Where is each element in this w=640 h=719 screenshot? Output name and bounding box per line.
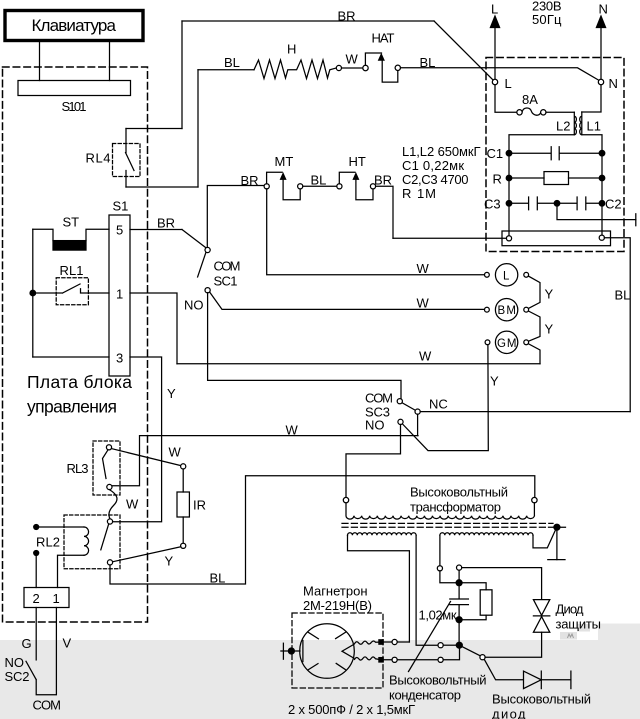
relay RL4 dashed box xyxy=(113,144,141,177)
door switch SC1 lever xyxy=(198,252,206,277)
magnetron filament square pin bottom xyxy=(379,658,383,662)
svg-text:C2,C3 4700: C2,C3 4700 xyxy=(402,172,469,187)
terminal dot pin2 xyxy=(34,551,39,556)
svg-text:L1,L2 650мкГ: L1,L2 650мкГ xyxy=(402,144,481,159)
svg-text:H: H xyxy=(287,42,296,57)
junction dot R left xyxy=(506,175,512,181)
svg-text:R 1M: R 1M xyxy=(402,186,436,201)
node W circle after heater xyxy=(336,65,341,70)
terminal L circle xyxy=(492,79,497,84)
junction dot C1 left xyxy=(506,150,512,156)
gray floor band xyxy=(0,640,640,719)
resistor R xyxy=(509,177,602,179)
wire GM left Y drop xyxy=(403,345,489,451)
svg-text:8A: 8A xyxy=(522,92,538,107)
junction dot left rail xyxy=(30,290,36,296)
relay RL2 dashed box xyxy=(64,515,120,569)
wire BL from HAT to N xyxy=(401,68,599,80)
relay RL3 top contact xyxy=(106,445,111,450)
wire cap node to filament node xyxy=(458,623,460,642)
wire BL to heater xyxy=(198,69,254,71)
wire heater to HAT xyxy=(342,67,363,69)
thermal cutout HAT body xyxy=(365,53,397,82)
bleeder resistor body xyxy=(480,590,492,615)
connector pin filament top xyxy=(438,643,443,648)
svg-text:Y: Y xyxy=(167,386,176,401)
terminal N circle xyxy=(598,79,603,84)
thermal cutout HT left contact xyxy=(337,184,342,189)
supply terminal N arrow xyxy=(596,16,605,28)
svg-text:COM: COM xyxy=(33,698,62,713)
turntable motor GM body xyxy=(495,331,517,353)
svg-text:HAT: HAT xyxy=(372,31,395,46)
magnetron pin circle bottom xyxy=(392,657,397,662)
thermal cutout HAT arrow xyxy=(378,53,385,61)
magnetron antenna triangle xyxy=(342,644,354,658)
door switch SC3 lever xyxy=(402,403,415,410)
svg-text:L: L xyxy=(491,2,498,17)
turntable motor GM left pin xyxy=(485,340,490,345)
filament winding xyxy=(348,533,417,536)
wire pin2 drop xyxy=(35,556,37,588)
gray band right extension xyxy=(598,624,640,644)
wire L2 to left rail xyxy=(509,135,574,236)
svg-text:GM: GM xyxy=(497,338,517,350)
wire Y IR to RL2 contact xyxy=(112,547,180,562)
wire RL4 to BL node xyxy=(126,186,198,188)
thermal cutout HAT left contact xyxy=(363,65,368,70)
svg-text:5: 5 xyxy=(116,223,123,238)
svg-text:RL2: RL2 xyxy=(36,535,60,550)
svg-text:трансформатор: трансформатор xyxy=(410,500,501,515)
wire N arrow lead xyxy=(600,28,602,80)
svg-text:W: W xyxy=(417,296,430,311)
S1 connector column xyxy=(109,215,130,376)
wire protection diode to output pin xyxy=(485,632,541,657)
wire NC drop to W run xyxy=(417,414,419,435)
svg-text:BR: BR xyxy=(157,216,175,231)
watermark squiggle xyxy=(568,634,574,638)
wire W run to GM right xyxy=(177,363,540,365)
fan motor BM left pin xyxy=(485,307,490,312)
wire left rail to S1 pin3 xyxy=(33,356,109,358)
svg-text:BM: BM xyxy=(498,305,517,317)
wire pin to node bottom jog xyxy=(443,648,459,659)
board connector 2|1 box xyxy=(24,588,69,608)
wire Y jumper L to BM xyxy=(528,276,540,308)
svg-text:SC1: SC1 xyxy=(214,274,238,289)
magnetron spoke upper-right xyxy=(336,632,346,638)
resistor H (heater, two sections) xyxy=(254,60,336,79)
connector S101 xyxy=(18,81,131,96)
svg-text:W: W xyxy=(169,445,182,460)
wire terminal block to BL drop xyxy=(604,238,630,412)
svg-text:ST: ST xyxy=(63,215,80,230)
svg-text:L: L xyxy=(505,76,512,91)
wire filament winding left lead xyxy=(348,535,410,642)
svg-text:IR: IR xyxy=(193,498,206,513)
wire BR diagonal to SC1 COM xyxy=(182,230,206,248)
svg-text:1: 1 xyxy=(53,591,60,606)
protection diode lower triangle xyxy=(533,617,549,633)
connector pin HV lead xyxy=(457,565,462,570)
wire SC1 NO to BM motor line xyxy=(210,292,485,309)
relay RL3 dashed box xyxy=(93,441,120,495)
svg-text:C1: C1 xyxy=(487,146,504,161)
wire Y jumper BM to GM xyxy=(528,311,540,341)
svg-text:L: L xyxy=(503,270,510,282)
relay RL2 top contact xyxy=(107,519,112,524)
relay RL2 coil xyxy=(84,527,89,555)
svg-text:Y: Y xyxy=(545,322,554,337)
door switch SC3 NC contact xyxy=(415,409,420,414)
HV capacitor plates xyxy=(450,599,469,605)
magnetron filament lead bottom wavy xyxy=(355,657,379,660)
door switch SC3 COM contact xyxy=(397,399,402,404)
wire SC3 NO to transformer primary xyxy=(346,425,401,498)
wire MT branch to lamp L motor line xyxy=(267,189,485,275)
lamp motor L right pin xyxy=(524,272,529,277)
thermistor ST leads xyxy=(33,229,109,240)
filter terminal block xyxy=(502,231,611,246)
wire L to fuse xyxy=(495,85,517,113)
keyboard box Клавиатура xyxy=(5,11,143,41)
wire fuse to choke L2 xyxy=(546,111,574,113)
relay RL1 dashed box xyxy=(56,278,88,305)
chassis ground stem xyxy=(556,530,558,559)
terminal block right pin xyxy=(599,235,604,240)
thermal cutout HT body xyxy=(339,172,373,199)
wire magnetron pin top xyxy=(383,641,409,643)
thermal cutout MT body xyxy=(267,172,301,199)
wire NC to BL xyxy=(420,411,630,413)
svg-text:BL: BL xyxy=(615,288,631,303)
wire W RL3 to IR xyxy=(111,449,180,466)
svg-text:1: 1 xyxy=(116,287,123,302)
wire COM SC1 riser to MT xyxy=(207,186,264,248)
svg-text:Y: Y xyxy=(165,554,174,569)
wire BL vertical from heater xyxy=(197,70,199,187)
thermal cutout MT arrow xyxy=(280,172,287,180)
relay RL1 switch xyxy=(33,284,109,293)
svg-text:BL: BL xyxy=(311,173,327,188)
control board dashed outline xyxy=(3,67,148,622)
svg-text:RL1: RL1 xyxy=(60,263,84,278)
wire GM right jog to W run xyxy=(528,344,540,364)
svg-text:защиты: защиты xyxy=(556,617,602,632)
magnetron spoke lower-left xyxy=(308,664,318,670)
fan motor BM body xyxy=(495,299,517,321)
capacitor C1 xyxy=(509,147,602,160)
wire L1 to right rail xyxy=(582,135,602,235)
supply terminal L arrow xyxy=(490,16,499,28)
svg-text:N: N xyxy=(609,76,618,91)
wire keyboard left lead xyxy=(39,43,41,81)
fan motor BM right pin xyxy=(524,307,529,312)
wire wavy RL3 to RL2 contact xyxy=(109,490,117,519)
svg-text:Y: Y xyxy=(545,287,554,302)
wire BR into terminal block xyxy=(393,237,506,239)
wire filter tap to chassis stub xyxy=(557,203,636,219)
feedthrough bar left xyxy=(282,643,284,659)
lamp motor L left pin xyxy=(485,272,490,277)
relay RL3 bottom contact xyxy=(107,484,112,489)
wire W run NC to RL3 xyxy=(112,436,418,486)
resistor IR body xyxy=(177,492,189,517)
wire HT to filter block xyxy=(376,186,393,238)
svg-text:W: W xyxy=(346,52,359,67)
door switch SC2 lever xyxy=(26,661,36,679)
connector pin filament lead xyxy=(437,566,442,571)
resistor IR top pin xyxy=(181,464,186,469)
core ground segment xyxy=(549,526,566,528)
HV winding xyxy=(440,533,533,536)
svg-text:Высоковольтный: Высоковольтный xyxy=(410,485,508,500)
wire filament pin jog to HV node xyxy=(440,571,456,583)
magnetron body circle xyxy=(300,624,355,679)
wire SC1 NO down to BR run xyxy=(208,293,401,399)
wire MT to HT xyxy=(303,185,337,187)
wire BR top run xyxy=(182,20,434,22)
svg-text:W: W xyxy=(419,349,432,364)
door switch SC3 NO contact xyxy=(398,419,403,424)
wire BR diagonal to L terminal xyxy=(434,21,493,80)
junction dot HV node bottom xyxy=(456,617,462,623)
svg-text:BL: BL xyxy=(224,55,240,70)
fuse 8A left circle xyxy=(517,110,522,115)
junction dot core ground xyxy=(554,524,560,530)
svg-text:NC: NC xyxy=(429,397,448,412)
svg-text:V: V xyxy=(63,636,72,651)
svg-text:C3: C3 xyxy=(484,197,501,212)
wire S1 pin1 xyxy=(130,293,177,364)
wire HV winding left lead xyxy=(439,535,441,565)
svg-text:HT: HT xyxy=(349,154,366,169)
svg-text:BL: BL xyxy=(420,55,436,70)
lamp motor L body xyxy=(495,264,517,286)
svg-text:S101: S101 xyxy=(62,99,87,114)
svg-text:COM: COM xyxy=(214,259,241,274)
wire SC2 COM loop xyxy=(36,608,56,695)
svg-text:RL3: RL3 xyxy=(67,461,89,476)
wire node diagonal to output pin xyxy=(462,647,480,656)
fuse 8A right circle xyxy=(541,110,546,115)
feedthrough dot xyxy=(288,648,294,654)
svg-text:COM: COM xyxy=(365,391,393,406)
chassis ground bar xyxy=(548,559,565,561)
wire L arrow lead xyxy=(494,28,496,80)
terminal dot coil top xyxy=(34,525,39,530)
thermistor ST body xyxy=(53,241,86,251)
junction dot C1 right xyxy=(599,150,605,156)
svg-text:L2: L2 xyxy=(556,119,570,134)
svg-text:1,02мк: 1,02мк xyxy=(419,608,457,623)
svg-text:Высоковольтный: Высоковольтный xyxy=(492,692,591,707)
svg-text:S1: S1 xyxy=(113,199,129,214)
transformer core dashed lines xyxy=(342,523,553,527)
thermal cutout MT left contact xyxy=(264,184,269,189)
svg-text:L1: L1 xyxy=(587,119,601,134)
svg-text:C2: C2 xyxy=(605,197,622,212)
capacitor C3 xyxy=(509,197,557,210)
junction dot R right xyxy=(599,175,605,181)
svg-text:2 x 500пФ / 2 x 1,5мкГ: 2 x 500пФ / 2 x 1,5мкГ xyxy=(288,702,415,717)
door switch SC1 COM contact xyxy=(205,247,210,252)
wire S1 pin3 Y xyxy=(113,357,162,522)
resistor IR bottom pin xyxy=(181,543,186,548)
wire pin to node top xyxy=(443,644,456,646)
svg-text:Клавиатура: Клавиатура xyxy=(32,16,117,35)
junction dot filament node xyxy=(456,642,462,648)
svg-text:Диод: Диод xyxy=(556,602,584,617)
svg-text:2М-219Н(В): 2М-219Н(В) xyxy=(303,598,372,613)
wire HV to protection diode xyxy=(462,568,542,600)
svg-text:NO: NO xyxy=(365,418,385,433)
svg-text:W: W xyxy=(286,423,299,438)
wire left rail xyxy=(32,229,34,357)
magnetron dashed box xyxy=(292,613,383,688)
svg-text:конденсатор: конденсатор xyxy=(389,688,461,703)
wire N to choke L1 xyxy=(582,85,601,112)
fuse 8A element xyxy=(522,108,541,115)
svg-text:BR: BR xyxy=(374,173,392,188)
magnetron spoke lower-right xyxy=(336,663,345,669)
thermal cutout HT arrow xyxy=(352,172,359,180)
relay RL4 switch xyxy=(126,129,135,188)
thermal cutout MT right contact xyxy=(298,184,303,189)
junction dot C3 left xyxy=(506,201,512,207)
wire magnetron pin bottom row xyxy=(383,659,438,661)
resistor IR leads xyxy=(182,469,184,543)
HV transformer primary left terminal xyxy=(343,497,348,502)
svg-text:C1 0,22мк: C1 0,22мк xyxy=(402,158,464,173)
svg-text:SC2: SC2 xyxy=(5,669,30,684)
wire S1 pin5 BR xyxy=(130,229,182,231)
wire keyboard right lead xyxy=(109,43,111,81)
door switch SC1 NO contact xyxy=(205,288,210,293)
HV diode cathode bar xyxy=(540,671,542,689)
svg-text:Плата блока: Плата блока xyxy=(27,372,132,392)
wire RL2 coil bottom lead xyxy=(58,555,85,587)
wire BL RL2 to transformer xyxy=(110,476,535,584)
watermark remnant patch 1 xyxy=(577,624,590,632)
svg-text:N: N xyxy=(599,2,608,17)
terminal block left pin xyxy=(506,236,511,241)
svg-text:диод: диод xyxy=(492,707,526,719)
HV capacitor leads xyxy=(458,586,460,617)
svg-text:2: 2 xyxy=(33,591,40,606)
svg-text:Y: Y xyxy=(490,374,499,389)
HV diode triangle xyxy=(524,671,542,689)
wire HV diode to end terminal xyxy=(541,679,571,681)
leader line capacitor label xyxy=(409,602,451,672)
chassis stub end bar xyxy=(635,214,637,226)
wire RL2 coil top lead xyxy=(39,526,84,528)
junction dot C2 right xyxy=(599,201,605,207)
thermal cutout HAT right contact xyxy=(395,65,400,70)
output terminal pin xyxy=(480,655,485,660)
magnetron pin circle top xyxy=(392,639,397,644)
connector pin filament bottom xyxy=(438,657,443,662)
svg-text:BR: BR xyxy=(338,9,356,24)
magnetron antenna feedthrough line xyxy=(281,650,300,652)
relay RL2 bottom contact xyxy=(107,560,112,565)
protection diode middle bar xyxy=(533,615,549,617)
svg-text:NO: NO xyxy=(5,655,25,670)
choke coil L1 xyxy=(580,112,582,135)
wire G from pin2 xyxy=(35,608,37,660)
wire BR riser xyxy=(181,21,183,129)
svg-text:W: W xyxy=(126,497,139,512)
svg-text:NO: NO xyxy=(184,298,204,313)
svg-text:MT: MT xyxy=(275,154,294,169)
svg-text:Магнетрон: Магнетрон xyxy=(303,584,368,599)
svg-text:G: G xyxy=(22,636,32,651)
relay RL3 lever xyxy=(103,450,109,479)
wire HV pin drop xyxy=(458,570,460,580)
protection diode upper triangle xyxy=(533,600,549,616)
wire HV winding right lead to core ground xyxy=(533,530,556,548)
svg-text:управления: управления xyxy=(27,397,117,417)
capacitor C2 xyxy=(557,197,602,210)
relay RL2 lever xyxy=(101,524,109,550)
svg-text:RL4: RL4 xyxy=(86,151,111,166)
wire output pin to HV diode xyxy=(484,660,523,680)
thermal cutout HT right contact xyxy=(370,184,375,189)
watermark remnant patch 2 xyxy=(560,632,577,640)
HV transformer primary right terminal xyxy=(532,497,537,502)
turntable motor GM right pin xyxy=(524,340,529,345)
svg-text:50Гц: 50Гц xyxy=(532,12,562,27)
line filter dashed box xyxy=(486,58,624,252)
wire filament winding right lead xyxy=(416,535,438,645)
svg-text:BL: BL xyxy=(210,571,226,586)
svg-text:Высоковольтный: Высоковольтный xyxy=(389,673,487,688)
magnetron spoke upper-left xyxy=(308,632,318,638)
svg-text:W: W xyxy=(417,261,430,276)
svg-text:3: 3 xyxy=(116,351,123,366)
bleeder resistor branch xyxy=(462,583,486,620)
magnetron filament square pin top xyxy=(379,640,383,644)
wire RL4 top to BR riser xyxy=(126,128,182,130)
HV transformer primary winding xyxy=(346,503,534,519)
svg-text:R: R xyxy=(493,172,502,187)
choke coil L2 xyxy=(574,112,576,135)
svg-text:BR: BR xyxy=(241,173,259,188)
feedthrough bar right xyxy=(302,640,304,661)
junction dot C3-C2 middle xyxy=(554,201,560,207)
magnetron filament lead top wavy xyxy=(355,641,379,644)
junction dot HV node top xyxy=(456,580,462,586)
end terminal bar xyxy=(570,671,572,689)
